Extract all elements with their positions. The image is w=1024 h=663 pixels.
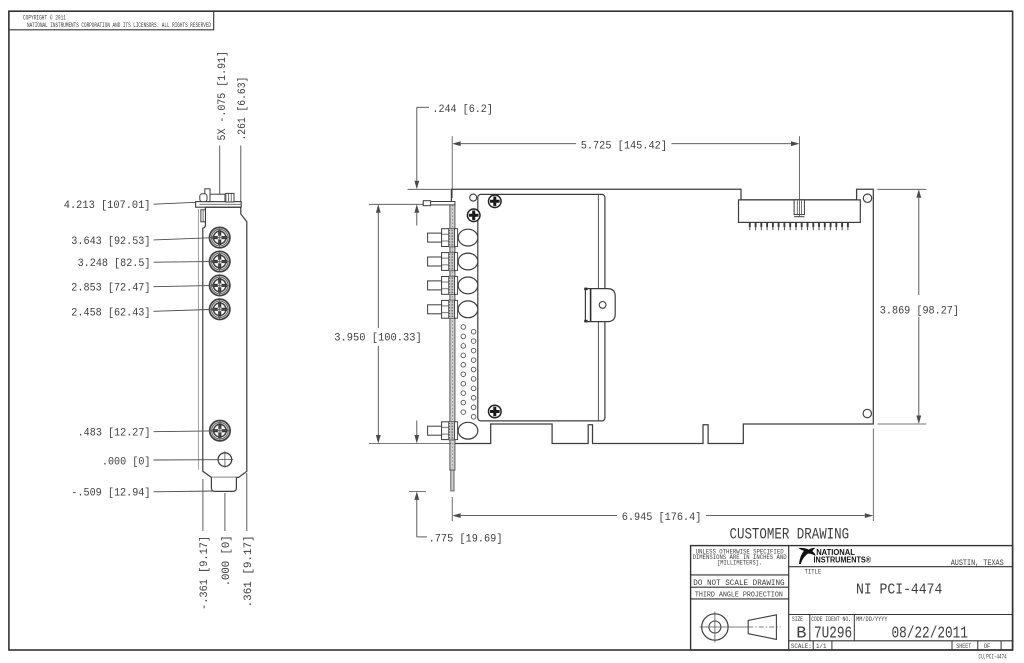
PCB outline [451, 189, 873, 443]
perforation holes on cover lip [461, 325, 476, 419]
svg-text:3.950 [100.33]: 3.950 [100.33] [334, 333, 422, 345]
svg-text:COPYRIGHT © 2011: COPYRIGHT © 2011 [23, 13, 66, 21]
dim .775 [19.69] [409, 421, 503, 546]
svg-text:08/22/2011: 08/22/2011 [892, 625, 968, 644]
bottom row cell dividers [809, 615, 811, 641]
svg-text:5X -.075 [1.91]: 5X -.075 [1.91] [217, 51, 229, 141]
scale row dividers [812, 641, 814, 650]
connector J4 (face) 2.458 [210, 299, 230, 319]
hole top-right [863, 194, 871, 202]
bracket ear (side view) [423, 202, 455, 205]
bracket strip bottom tab [451, 470, 454, 491]
title block outer box [691, 546, 1013, 650]
svg-text:INSTRUMENTS®: INSTRUMENTS® [814, 555, 872, 565]
svg-text:.261 [6.63]: .261 [6.63] [237, 77, 249, 141]
bracket screw hole .000 datum [218, 453, 232, 467]
connector J4 side view [428, 300, 478, 318]
connector J2 side view [428, 252, 478, 270]
svg-text:DO NOT SCALE DRAWING: DO NOT SCALE DRAWING [693, 579, 784, 588]
svg-text:7U296: 7U296 [814, 625, 852, 644]
bracket side strip [450, 203, 455, 470]
phillips screw S1 [489, 195, 502, 208]
dim 3.869 [98.27] [878, 189, 960, 424]
svg-text:5.725 [145.42]: 5.725 [145.42] [581, 140, 667, 152]
title block vertical divider [788, 546, 790, 650]
connector J1 (face) 3.643 [210, 227, 230, 247]
retaining screw on ear [208, 194, 234, 201]
svg-text:3.248 [82.5]: 3.248 [82.5] [78, 258, 151, 270]
svg-text:-.361 [9.17]: -.361 [9.17] [199, 536, 211, 610]
screw tab [205, 189, 210, 202]
dim .244 [6.2] [369, 104, 493, 226]
connector J5 side view [428, 422, 478, 440]
svg-text:6.945 [176.4]: 6.945 [176.4] [622, 512, 702, 524]
svg-text:.483 [12.27]: .483 [12.27] [78, 428, 151, 440]
connector J1 side view [428, 228, 478, 246]
connector key [794, 200, 804, 215]
retaining clip on cover [585, 289, 615, 322]
bracket face outline [203, 207, 247, 477]
bottom leader lines of bracket [202, 479, 204, 531]
svg-text:NI PCI-4474: NI PCI-4474 [856, 580, 942, 598]
screw tip blob [200, 194, 207, 202]
svg-text:SHEET: SHEET [956, 643, 971, 651]
hole bottom-right [863, 409, 871, 417]
svg-text:.000 [0]: .000 [0] [221, 535, 233, 586]
right col row lines [789, 566, 1013, 568]
hole near card top-left [470, 194, 477, 201]
extension line from .261 label to bracket ear [240, 146, 242, 208]
svg-text:2.458 [62.43]: 2.458 [62.43] [71, 307, 150, 319]
svg-text:B: B [796, 624, 806, 643]
svg-text:CODE IDENT NO.: CODE IDENT NO. [811, 616, 851, 623]
phillips screw S3 [489, 405, 502, 418]
shield cover box [478, 194, 605, 421]
svg-text:.775 [19.69]: .775 [19.69] [429, 534, 503, 546]
top connector J6 [739, 200, 861, 223]
svg-text:3.643 [92.53]: 3.643 [92.53] [71, 236, 150, 248]
dim 5.725 [145.42] [452, 136, 799, 217]
svg-text:OF: OF [984, 643, 991, 651]
bracket bottom tab [211, 477, 236, 491]
svg-text:.361 [9.17]: .361 [9.17] [243, 535, 255, 607]
svg-text:SCALE:: SCALE: [791, 643, 812, 651]
connector J5 (face) .483 [210, 421, 230, 441]
svg-text:AUSTIN, TEXAS: AUSTIN, TEXAS [951, 559, 1004, 568]
svg-text:NATIONAL INSTRUMENTS CORPORATI: NATIONAL INSTRUMENTS CORPORATION AND ITS… [27, 22, 211, 29]
svg-text:-.509 [12.94]: -.509 [12.94] [71, 487, 150, 499]
svg-text:4.213 [107.01]: 4.213 [107.01] [64, 200, 151, 212]
svg-text:3.869 [98.27]: 3.869 [98.27] [880, 306, 959, 318]
connector J3 (face) 2.853 [210, 275, 230, 295]
svg-text:1/1: 1/1 [816, 643, 827, 651]
extension line from 5X label to first connector [219, 146, 221, 237]
svg-text:CUSTOMER DRAWING: CUSTOMER DRAWING [730, 525, 850, 543]
svg-text:2.853 [72.47]: 2.853 [72.47] [71, 283, 150, 295]
dim 3.950 [100.33] [334, 204, 451, 443]
left col row lines [691, 574, 789, 576]
svg-text:SIZE: SIZE [792, 616, 803, 623]
svg-text:MM/DD/YYYY: MM/DD/YYYY [856, 616, 888, 623]
bracket ear plate (top) [196, 202, 242, 208]
svg-text:.000 [0]: .000 [0] [102, 456, 151, 468]
connector J2 (face) 3.248 [210, 251, 230, 271]
third angle projection symbol [700, 612, 781, 643]
svg-text:.244 [6.2]: .244 [6.2] [432, 104, 493, 116]
svg-text:[MILLIMETERS].: [MILLIMETERS]. [717, 560, 762, 567]
copyright note box [9, 11, 214, 30]
phillips screw S2 [467, 209, 480, 222]
NI eagle logo [798, 548, 815, 564]
svg-text:THIRD ANGLE PROJECTION: THIRD ANGLE PROJECTION [695, 591, 783, 599]
svg-text:CU,PCI-4474: CU,PCI-4474 [979, 653, 1007, 661]
svg-text:TITLE: TITLE [805, 568, 822, 575]
cover inner edge line [597, 195, 599, 421]
connector pins [750, 222, 848, 230]
dim 6.945 [176.4] [452, 429, 873, 525]
bracket hook detail below ear [201, 210, 206, 222]
connector J3 side view [428, 276, 478, 294]
